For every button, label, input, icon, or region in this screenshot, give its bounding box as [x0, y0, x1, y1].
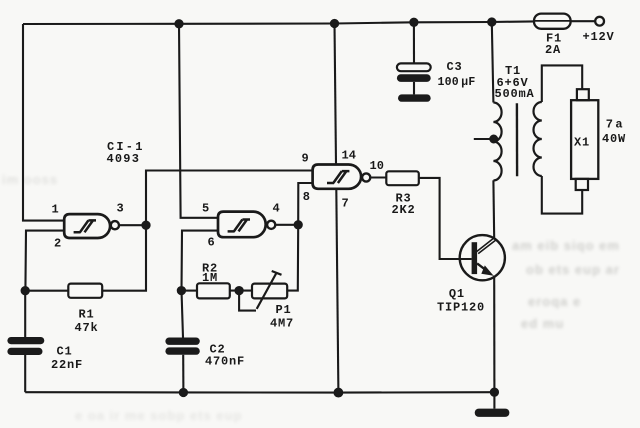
- emitter arrowhead: [481, 265, 493, 275]
- wire bottom ground rail: [25, 391, 494, 393]
- wire node B up to pin 8: [298, 183, 312, 225]
- svg-text:7: 7: [342, 196, 349, 210]
- pin label 9: [302, 151, 309, 165]
- wire primary top: [492, 22, 494, 103]
- wire C1 top lead: [24, 291, 26, 337]
- pin label 7: [342, 196, 349, 210]
- label X1: [574, 136, 590, 150]
- wire ground stub: [493, 392, 495, 408]
- wire pin 6 drop to R2/C2 node: [182, 231, 219, 291]
- svg-text:2A: 2A: [545, 43, 561, 57]
- node R2/P1 junction: [236, 287, 243, 294]
- svg-text:C3: C3: [447, 60, 463, 74]
- output bubble gate 2: [267, 221, 275, 229]
- svg-text:C1: C1: [57, 345, 73, 359]
- label CI-1 4093: [107, 140, 145, 166]
- label F1 2A: [545, 32, 562, 58]
- svg-text:Q1: Q1: [449, 287, 465, 301]
- transistor Q1 circle: [460, 235, 505, 280]
- svg-text:6: 6: [208, 236, 215, 250]
- node A junction: [142, 222, 149, 229]
- label C1 22nF: [51, 345, 83, 373]
- wire P1 wiper to R2 right: [239, 291, 256, 311]
- node center tap: [490, 136, 497, 143]
- wire C3 drop: [413, 22, 415, 63]
- label R1 47k: [75, 308, 99, 336]
- wire secondary top to lamp: [542, 65, 582, 102]
- op-amp U1c gate CI-1c body: [313, 165, 362, 189]
- transistor Q1 collector double stroke: [477, 238, 496, 253]
- ground symbol: [475, 409, 510, 417]
- pin label 6: [208, 236, 215, 250]
- wire R2 right lead: [230, 290, 252, 292]
- transistor Q1 base bar: [472, 242, 478, 274]
- svg-text:22nF: 22nF: [51, 358, 83, 372]
- output bubble gate 3: [362, 173, 370, 181]
- svg-text:100 µF: 100 µF: [438, 76, 476, 89]
- wire R2 left lead: [181, 290, 197, 292]
- wire left rail to pin 1: [23, 24, 64, 221]
- svg-text:3: 3: [117, 202, 124, 216]
- hysteresis symbol gate 3: [327, 171, 349, 183]
- label C2 470nF: [205, 342, 245, 368]
- wire secondary bottom to lamp: [542, 176, 582, 214]
- transistor Q1 emitter: [477, 263, 488, 272]
- svg-text:47k: 47k: [75, 321, 99, 335]
- label 7 a 40W: [602, 117, 626, 146]
- svg-text:4: 4: [273, 201, 280, 215]
- wire C2 top lead: [182, 291, 184, 338]
- lamp X1 body: [571, 100, 598, 179]
- pin label 8: [303, 190, 310, 204]
- hysteresis symbol gate 2: [228, 220, 250, 232]
- node B junction: [295, 221, 302, 228]
- label R2 1M: [202, 261, 218, 285]
- wire R1 left lead: [25, 290, 68, 292]
- svg-text:14: 14: [342, 149, 356, 163]
- label R3 2K2: [392, 191, 416, 217]
- node R2 left junction: [178, 287, 185, 294]
- svg-text:R1: R1: [79, 308, 95, 322]
- fuse F1: [534, 14, 571, 29]
- capacitor C2: [165, 338, 199, 355]
- transformer T1 primary winding: [493, 103, 501, 181]
- wire gate2 output to node B: [275, 224, 298, 226]
- svg-text:2: 2: [54, 236, 61, 250]
- svg-text:1M: 1M: [202, 271, 218, 285]
- node pin7 rail junction: [335, 389, 343, 397]
- pin label 10: [370, 159, 384, 173]
- node junction top x414: [410, 19, 417, 26]
- wire C2 bottom to rail: [182, 355, 184, 393]
- wire pin 7 VSS to ground rail: [336, 189, 338, 393]
- capacitor C3: [397, 63, 431, 94]
- label Q1 TIP120: [437, 287, 485, 315]
- wire node B down to P1 right: [287, 225, 298, 291]
- resistor R1: [68, 284, 102, 298]
- svg-text:2K2: 2K2: [392, 203, 416, 217]
- transformer T1 secondary winding: [534, 102, 542, 176]
- wire emitter down to rail: [493, 276, 495, 393]
- svg-text:P1: P1: [276, 303, 292, 317]
- pin label 14: [342, 149, 356, 163]
- wire node A down to R1: [102, 225, 146, 291]
- label +12V: [583, 30, 615, 44]
- capacitor C1: [7, 337, 44, 355]
- svg-text:9: 9: [302, 151, 309, 165]
- pin label 2: [54, 236, 61, 250]
- wire gate1 output to node A: [119, 224, 146, 226]
- wire pin 14 VDD: [335, 24, 337, 165]
- op-amp U1a gate CI-1a body: [64, 214, 110, 238]
- svg-text:X1: X1: [574, 136, 590, 150]
- resistor R3: [386, 171, 419, 185]
- svg-text:470nF: 470nF: [205, 355, 245, 369]
- transformer T1 core: [516, 103, 519, 176]
- wire fuse to terminal: [571, 20, 595, 22]
- node junction top x335: [331, 20, 338, 27]
- node junction top x179: [175, 20, 182, 27]
- resistor R2: [197, 283, 230, 298]
- wire pin 2 drop to R1/C1 node: [25, 231, 64, 291]
- label P1 4M7: [270, 303, 294, 331]
- wire node A up and right to pin 9: [146, 171, 313, 226]
- lamp X1 top cap: [577, 89, 589, 100]
- node C2 rail junction: [180, 389, 187, 396]
- svg-text:5: 5: [202, 201, 209, 215]
- node junction top x492: [488, 18, 495, 25]
- pin label 3: [117, 202, 124, 216]
- potentiometer P1 body: [252, 284, 287, 299]
- potentiometer P1 wiper arrow: [257, 271, 282, 309]
- node emitter rail junction: [491, 389, 498, 396]
- wire R3 to Q1 base: [419, 178, 472, 259]
- label T1 6+6V 500mA: [495, 64, 535, 101]
- svg-text:10: 10: [370, 159, 384, 173]
- svg-text:4093: 4093: [107, 152, 141, 166]
- pin label 5: [202, 201, 209, 215]
- svg-text:7 a: 7 a: [606, 117, 623, 131]
- node R1 left junction: [22, 287, 29, 294]
- wire top +12V rail: [23, 21, 534, 24]
- wire gate3 output to R3: [370, 176, 386, 178]
- lamp X1 bottom cap: [576, 179, 588, 190]
- svg-text:+12V: +12V: [583, 30, 615, 44]
- terminal +12V: [595, 17, 604, 26]
- hysteresis symbol gate 1: [74, 220, 96, 232]
- svg-text:40W: 40W: [602, 132, 626, 146]
- wire center tap stub: [474, 138, 494, 140]
- svg-text:4M7: 4M7: [270, 317, 294, 331]
- ground under C3: [398, 94, 431, 101]
- pin label 4: [273, 201, 280, 215]
- op-amp U1b gate CI-1b body: [218, 212, 266, 238]
- svg-text:500mA: 500mA: [495, 87, 535, 101]
- wire C1 bottom to rail: [24, 355, 26, 392]
- wire collector up to primary: [492, 180, 495, 239]
- svg-text:8: 8: [303, 190, 310, 204]
- svg-text:TIP120: TIP120: [437, 300, 485, 314]
- pin label 1: [52, 202, 59, 216]
- wire x180 rail to pin 5: [179, 24, 218, 218]
- label C3 100uF: [438, 60, 476, 89]
- output bubble gate 1: [111, 221, 119, 229]
- svg-text:1: 1: [52, 202, 59, 216]
